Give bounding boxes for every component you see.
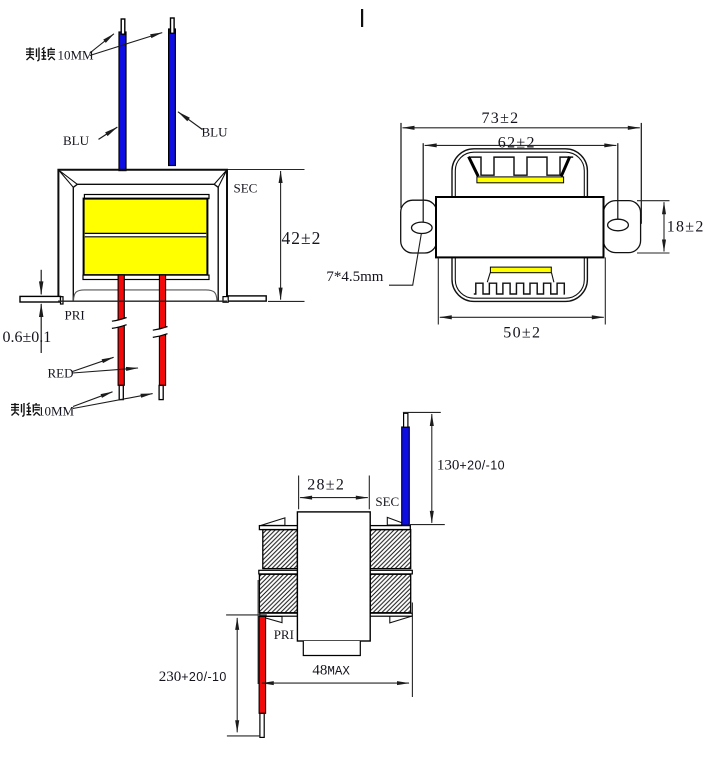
inner frame (73, 184, 218, 300)
svg-text:PRI: PRI (65, 308, 85, 323)
svg-text:62±2: 62±2 (498, 134, 536, 151)
core limb rectangle (297, 512, 370, 641)
inner bottom rounded wall (74, 290, 217, 301)
wire red lead left (PRI) (112, 275, 127, 400)
svg-text:50±2: 50±2 (503, 325, 541, 342)
svg-text:PRI: PRI (274, 627, 294, 642)
svg-text:7*4.5mm: 7*4.5mm (326, 269, 383, 285)
middle separator plate (259, 570, 413, 574)
svg-text:10MM: 10MM (58, 48, 95, 63)
svg-text:73±2: 73±2 (482, 110, 520, 127)
mounting tab right (604, 201, 641, 253)
dimension 73±2 (401, 123, 641, 224)
wire blue lead left (SEC) (119, 19, 126, 171)
svg-text:SEC: SEC (375, 494, 399, 509)
dimension 0.6±0.1 arrows (40, 270, 42, 353)
mounting flange right (227, 296, 266, 301)
winding divider (85, 233, 206, 236)
yellow strip bottom (490, 267, 551, 273)
frame corner bevels (59, 170, 227, 187)
wire red lead right (PRI) (153, 275, 168, 400)
leaders to red wire tips (73, 392, 113, 407)
wire blue lead right (SEC) (169, 18, 176, 166)
trapezoid thick sides (469, 157, 570, 177)
tab hole left (412, 222, 433, 233)
tab hole right (608, 219, 629, 231)
wire red lead (side view) (258, 580, 266, 737)
svg-text:18±2: 18±2 (667, 219, 705, 236)
svg-text:RED: RED (48, 365, 74, 380)
dimension 230+20/-10 (226, 615, 267, 736)
core outline inner (455, 152, 584, 298)
strip side slants (487, 273, 554, 283)
transformer body outer frame (58, 170, 227, 301)
core outline outer (452, 149, 587, 302)
tab bent triangle bottom-right (390, 616, 412, 623)
dimension 42±2 (228, 170, 305, 302)
flange right nub (223, 297, 228, 303)
bobbin top flange (84, 195, 209, 199)
dimension 50±2 (438, 257, 605, 324)
wire blue lead (side view) (402, 413, 410, 525)
svg-text:42±2: 42±2 (282, 228, 322, 248)
svg-text:130+20/-10: 130+20/-10 (437, 458, 505, 474)
winding window yellow (84, 199, 208, 276)
bottom plate (260, 613, 413, 616)
leaders to blue wire tips (90, 34, 114, 53)
dimension 130+20/-10 (403, 412, 445, 524)
dimension 18±2 (637, 201, 670, 253)
core step bottom (303, 641, 360, 656)
tab bent triangle bottom-left (260, 617, 282, 623)
svg-text:SEC: SEC (234, 181, 258, 196)
top lamination comb (470, 157, 573, 175)
svg-text:0.6±0.1: 0.6±0.1 (3, 329, 52, 346)
svg-text:BLU: BLU (202, 124, 229, 139)
flange left nub (61, 297, 64, 304)
bobbin bottom flange (83, 275, 209, 279)
svg-text:28±2: 28±2 (307, 477, 345, 494)
yellow strip top (477, 177, 564, 183)
winding hatch upper-right (370, 530, 411, 569)
winding hatch upper-left (263, 530, 298, 569)
winding hatch lower-right (370, 574, 411, 612)
label 剥镀 10MM top (26, 47, 94, 62)
bottom lamination comb (474, 283, 565, 294)
dimension 62±2 (423, 143, 618, 222)
dimension 48MAX (262, 603, 413, 698)
tab bent triangle top-right (387, 517, 408, 525)
mounting flange left (20, 296, 61, 302)
top plate (259, 526, 410, 530)
dimension 28±2 (299, 476, 370, 510)
coil band (436, 197, 604, 257)
mounting tab left (401, 200, 437, 253)
winding hatch lower-left (259, 574, 297, 612)
svg-text:10MM: 10MM (38, 404, 75, 419)
body baseline (58, 300, 227, 302)
tab bent triangle top-left (261, 518, 285, 526)
svg-text:BLU: BLU (63, 133, 90, 148)
svg-text:230+20/-10: 230+20/-10 (159, 669, 227, 685)
svg-text:48MAX: 48MAX (312, 663, 350, 679)
label 剥镀 10MM bottom (11, 403, 75, 419)
stray cursor mark (361, 9, 363, 27)
